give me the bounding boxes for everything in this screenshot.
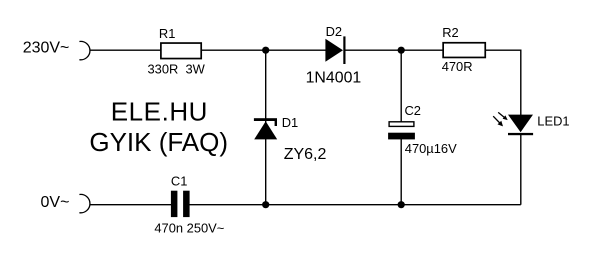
wire bottom rail: connector to C1 — [90, 204, 172, 206]
svg-text:R2: R2 — [442, 25, 458, 40]
resistor R2 — [443, 43, 485, 58]
svg-text:470n 250V~: 470n 250V~ — [154, 221, 224, 236]
svg-text:C1: C1 — [171, 174, 187, 189]
svg-text:330R 3W: 330R 3W — [148, 61, 206, 76]
wire D1 branch vertical — [265, 50, 267, 205]
capacitor C2 (electrolytic) — [388, 122, 415, 140]
junction node: bottom rail / C2 branch — [398, 201, 405, 208]
connector J1 230V~ input — [79, 41, 90, 59]
junction node: top rail / C2 branch — [398, 47, 405, 54]
capacitor C1 — [171, 191, 190, 217]
wire C2 branch: bottom plate to bottom rail — [400, 139, 402, 205]
wire top rail: D2 to R2 — [344, 49, 442, 51]
LED1 light emission arrows — [493, 112, 508, 126]
wire C2 branch: top rail to top plate — [400, 50, 402, 122]
svg-text:C2: C2 — [405, 103, 421, 118]
connector J2 0V~ input — [79, 194, 90, 212]
svg-text:230V~: 230V~ — [23, 40, 70, 57]
svg-text:ELE.HU: ELE.HU — [111, 97, 208, 127]
svg-text:470R: 470R — [442, 59, 473, 74]
svg-text:1N4001: 1N4001 — [306, 70, 362, 87]
wire top rail: R2 to right corner and down to LED1 — [486, 50, 521, 115]
zener diode D1 — [254, 118, 277, 139]
svg-text:470µ16V: 470µ16V — [405, 141, 457, 156]
svg-text:0V~: 0V~ — [41, 194, 70, 211]
resistor R1 — [161, 43, 201, 59]
svg-text:GYIK (FAQ): GYIK (FAQ) — [89, 127, 228, 157]
wire top rail: R1 to D2 — [202, 49, 327, 51]
wire bottom rail: C1 to right corner — [189, 204, 521, 206]
svg-text:ZY6,2: ZY6,2 — [284, 146, 327, 163]
diode D2 — [325, 36, 345, 64]
wire LED1 cathode down to bottom rail — [520, 134, 522, 205]
svg-text:D1: D1 — [282, 115, 298, 130]
junction node: bottom rail / D1 branch — [262, 201, 269, 208]
svg-text:LED1: LED1 — [537, 113, 569, 128]
LED LED1 — [508, 115, 533, 136]
wire top rail: connector to R1 — [90, 49, 161, 51]
svg-text:R1: R1 — [159, 26, 175, 41]
junction node: top rail / D1 branch — [262, 47, 269, 54]
svg-text:D2: D2 — [326, 24, 342, 39]
